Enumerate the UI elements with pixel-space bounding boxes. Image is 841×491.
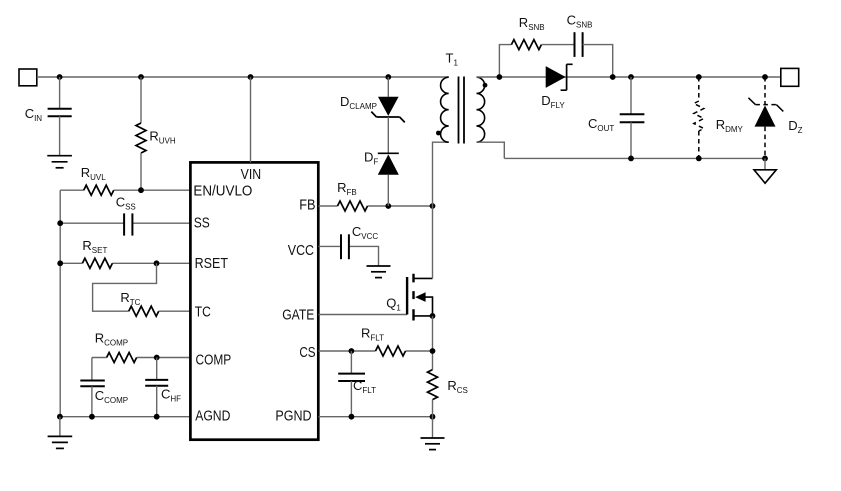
capacitor C_VCC bbox=[341, 234, 349, 259]
capacitor C_HF bbox=[145, 380, 168, 386]
resistor R_FB bbox=[338, 201, 368, 211]
svg-text:COMP: COMP bbox=[196, 352, 232, 369]
node snubber right junction bbox=[610, 74, 616, 80]
pin VIN stub bbox=[250, 77, 252, 162]
svg-text:VCC: VCC bbox=[288, 242, 314, 259]
svg-text:PGND: PGND bbox=[275, 407, 311, 424]
svg-text:AGND: AGND bbox=[195, 407, 230, 424]
wire C_FLT bottom bbox=[350, 381, 352, 417]
wire C_HF bottom bbox=[156, 386, 158, 417]
resistor R_UVH bbox=[136, 123, 146, 153]
ground chassis under D_Z bbox=[754, 170, 776, 183]
wire EN/UVLO row bbox=[60, 189, 190, 191]
node SS left-rail junction bbox=[57, 220, 63, 226]
transistor Q1 bbox=[407, 274, 432, 321]
wire C_IN top bbox=[59, 77, 61, 108]
wire output bottom rail bbox=[504, 157, 765, 159]
wire C_OUT top bbox=[630, 77, 632, 114]
resistor R_SET bbox=[82, 258, 112, 268]
node D_Z bottom junction bbox=[762, 156, 768, 162]
node PGND C_FLT junction bbox=[349, 414, 355, 420]
output terminal bbox=[781, 68, 799, 86]
svg-text:TC: TC bbox=[195, 303, 211, 320]
resistor R_COMP bbox=[107, 353, 137, 363]
resistor R_TC bbox=[129, 306, 159, 316]
ground under AGND rail bbox=[48, 436, 73, 448]
svg-text:VIN: VIN bbox=[241, 166, 262, 183]
resistor R_SNB bbox=[511, 40, 541, 50]
primary winding bbox=[441, 77, 449, 142]
node VIN-rail C_IN junction bbox=[57, 74, 63, 80]
node R_DMY top junction bbox=[696, 74, 702, 80]
wire D_F to FB node bbox=[387, 175, 389, 206]
wire COMP row bbox=[92, 357, 190, 359]
IC block U1 bbox=[190, 162, 318, 439]
wire top rail bbox=[37, 76, 449, 78]
svg-text:GATE: GATE bbox=[282, 307, 314, 324]
wire C_FLT top bbox=[350, 351, 352, 373]
wire secondary top rail bbox=[477, 76, 781, 78]
node RSET left-rail junction bbox=[57, 260, 63, 266]
transformer T1 bbox=[436, 77, 487, 144]
node D_Z top junction bbox=[762, 74, 768, 80]
secondary winding bbox=[477, 77, 485, 142]
core bbox=[459, 77, 465, 144]
wire R_UVH bottom bbox=[140, 153, 142, 190]
wire C_HF top bbox=[156, 358, 158, 380]
wire snubber right leg bbox=[583, 45, 613, 77]
node AGND left-rail junction bbox=[57, 414, 63, 420]
node COMP C_HF junction bbox=[154, 355, 160, 361]
node VIN-rail VIN-pin junction bbox=[248, 74, 254, 80]
node RSET R_TC junction bbox=[154, 260, 160, 266]
wire C_IN bottom bbox=[59, 116, 61, 155]
node FB drain junction bbox=[430, 203, 436, 209]
wire PGND row bbox=[318, 416, 432, 418]
svg-text:EN/UVLO: EN/UVLO bbox=[193, 183, 252, 200]
node C_OUT bottom junction bbox=[628, 156, 634, 162]
node C_OUT top junction bbox=[628, 74, 634, 80]
node CS C_FLT junction bbox=[349, 348, 355, 354]
wire R_CS ground stub bbox=[432, 400, 434, 438]
wire RSET to TC link bbox=[93, 263, 191, 311]
node FB D_F junction bbox=[385, 203, 391, 209]
input terminal bbox=[19, 69, 37, 86]
node CS R_CS junction bbox=[430, 348, 436, 354]
node Q1 source junction bbox=[430, 313, 436, 319]
wire drain line bbox=[433, 142, 449, 278]
wire GATE row bbox=[318, 314, 407, 316]
resistor R_UVL bbox=[84, 185, 114, 195]
wire C_COMP top bbox=[91, 358, 93, 380]
resistor R_DMY (dashed) bbox=[694, 77, 704, 158]
capacitor C_OUT bbox=[620, 114, 645, 122]
diode D_CLAMP bbox=[371, 97, 405, 123]
ground under C_IN bbox=[47, 156, 72, 168]
node snubber left junction bbox=[497, 74, 503, 80]
wire RSET row bbox=[60, 262, 190, 264]
wire R_UVH top bbox=[140, 77, 142, 123]
capacitor C_COMP bbox=[80, 381, 105, 387]
wire SS row bbox=[60, 222, 190, 224]
wire secondary bottom jog bbox=[477, 142, 505, 158]
node PGND R_CS junction bbox=[430, 414, 436, 420]
wire snubber left leg bbox=[499, 45, 511, 77]
diode D_F bbox=[378, 153, 399, 175]
node VIN-rail D_CLAMP junction bbox=[385, 74, 391, 80]
wire snubber middle bbox=[541, 44, 574, 46]
resistor R_CS bbox=[428, 370, 438, 400]
diode D_FLY bbox=[546, 64, 573, 90]
wire VCC row bbox=[318, 246, 378, 266]
svg-text:FB: FB bbox=[299, 197, 315, 214]
capacitor C_SNB bbox=[575, 32, 583, 57]
svg-text:SS: SS bbox=[194, 214, 210, 231]
wire source line bbox=[432, 316, 434, 370]
ground under R_CS bbox=[421, 438, 445, 450]
wire FB row bbox=[318, 205, 432, 207]
diode D_Z (dashed zener) bbox=[748, 77, 783, 159]
svg-text:CS: CS bbox=[299, 344, 315, 361]
node AGND C_COMP junction bbox=[89, 414, 95, 420]
wire D_CLAMP to D_F bbox=[387, 117, 389, 153]
wire CS row bbox=[318, 350, 432, 352]
wire C_OUT bottom bbox=[630, 122, 632, 158]
wire D_Z ground stub bbox=[764, 158, 766, 169]
ground under C_VCC bbox=[367, 266, 391, 278]
node primary phase dot bbox=[436, 131, 441, 136]
wire D_CLAMP top bbox=[387, 77, 389, 97]
wire left rail bbox=[59, 190, 61, 417]
node AGND C_HF junction bbox=[154, 414, 160, 420]
node EN/UVLO R_UVH junction bbox=[138, 187, 144, 193]
wire C_COMP bottom bbox=[91, 386, 93, 416]
node R_DMY bottom junction bbox=[696, 156, 702, 162]
resistor R_FLT bbox=[376, 346, 406, 356]
wire AGND row bbox=[60, 416, 191, 418]
capacitor C_IN bbox=[48, 109, 72, 117]
node VIN-rail R_UVH junction bbox=[138, 74, 144, 80]
capacitor C_SS bbox=[124, 213, 132, 235]
wire AGND ground stub bbox=[59, 417, 61, 437]
node secondary phase dot bbox=[483, 83, 488, 88]
svg-text:RSET: RSET bbox=[195, 255, 228, 272]
capacitor C_FLT bbox=[338, 374, 365, 381]
